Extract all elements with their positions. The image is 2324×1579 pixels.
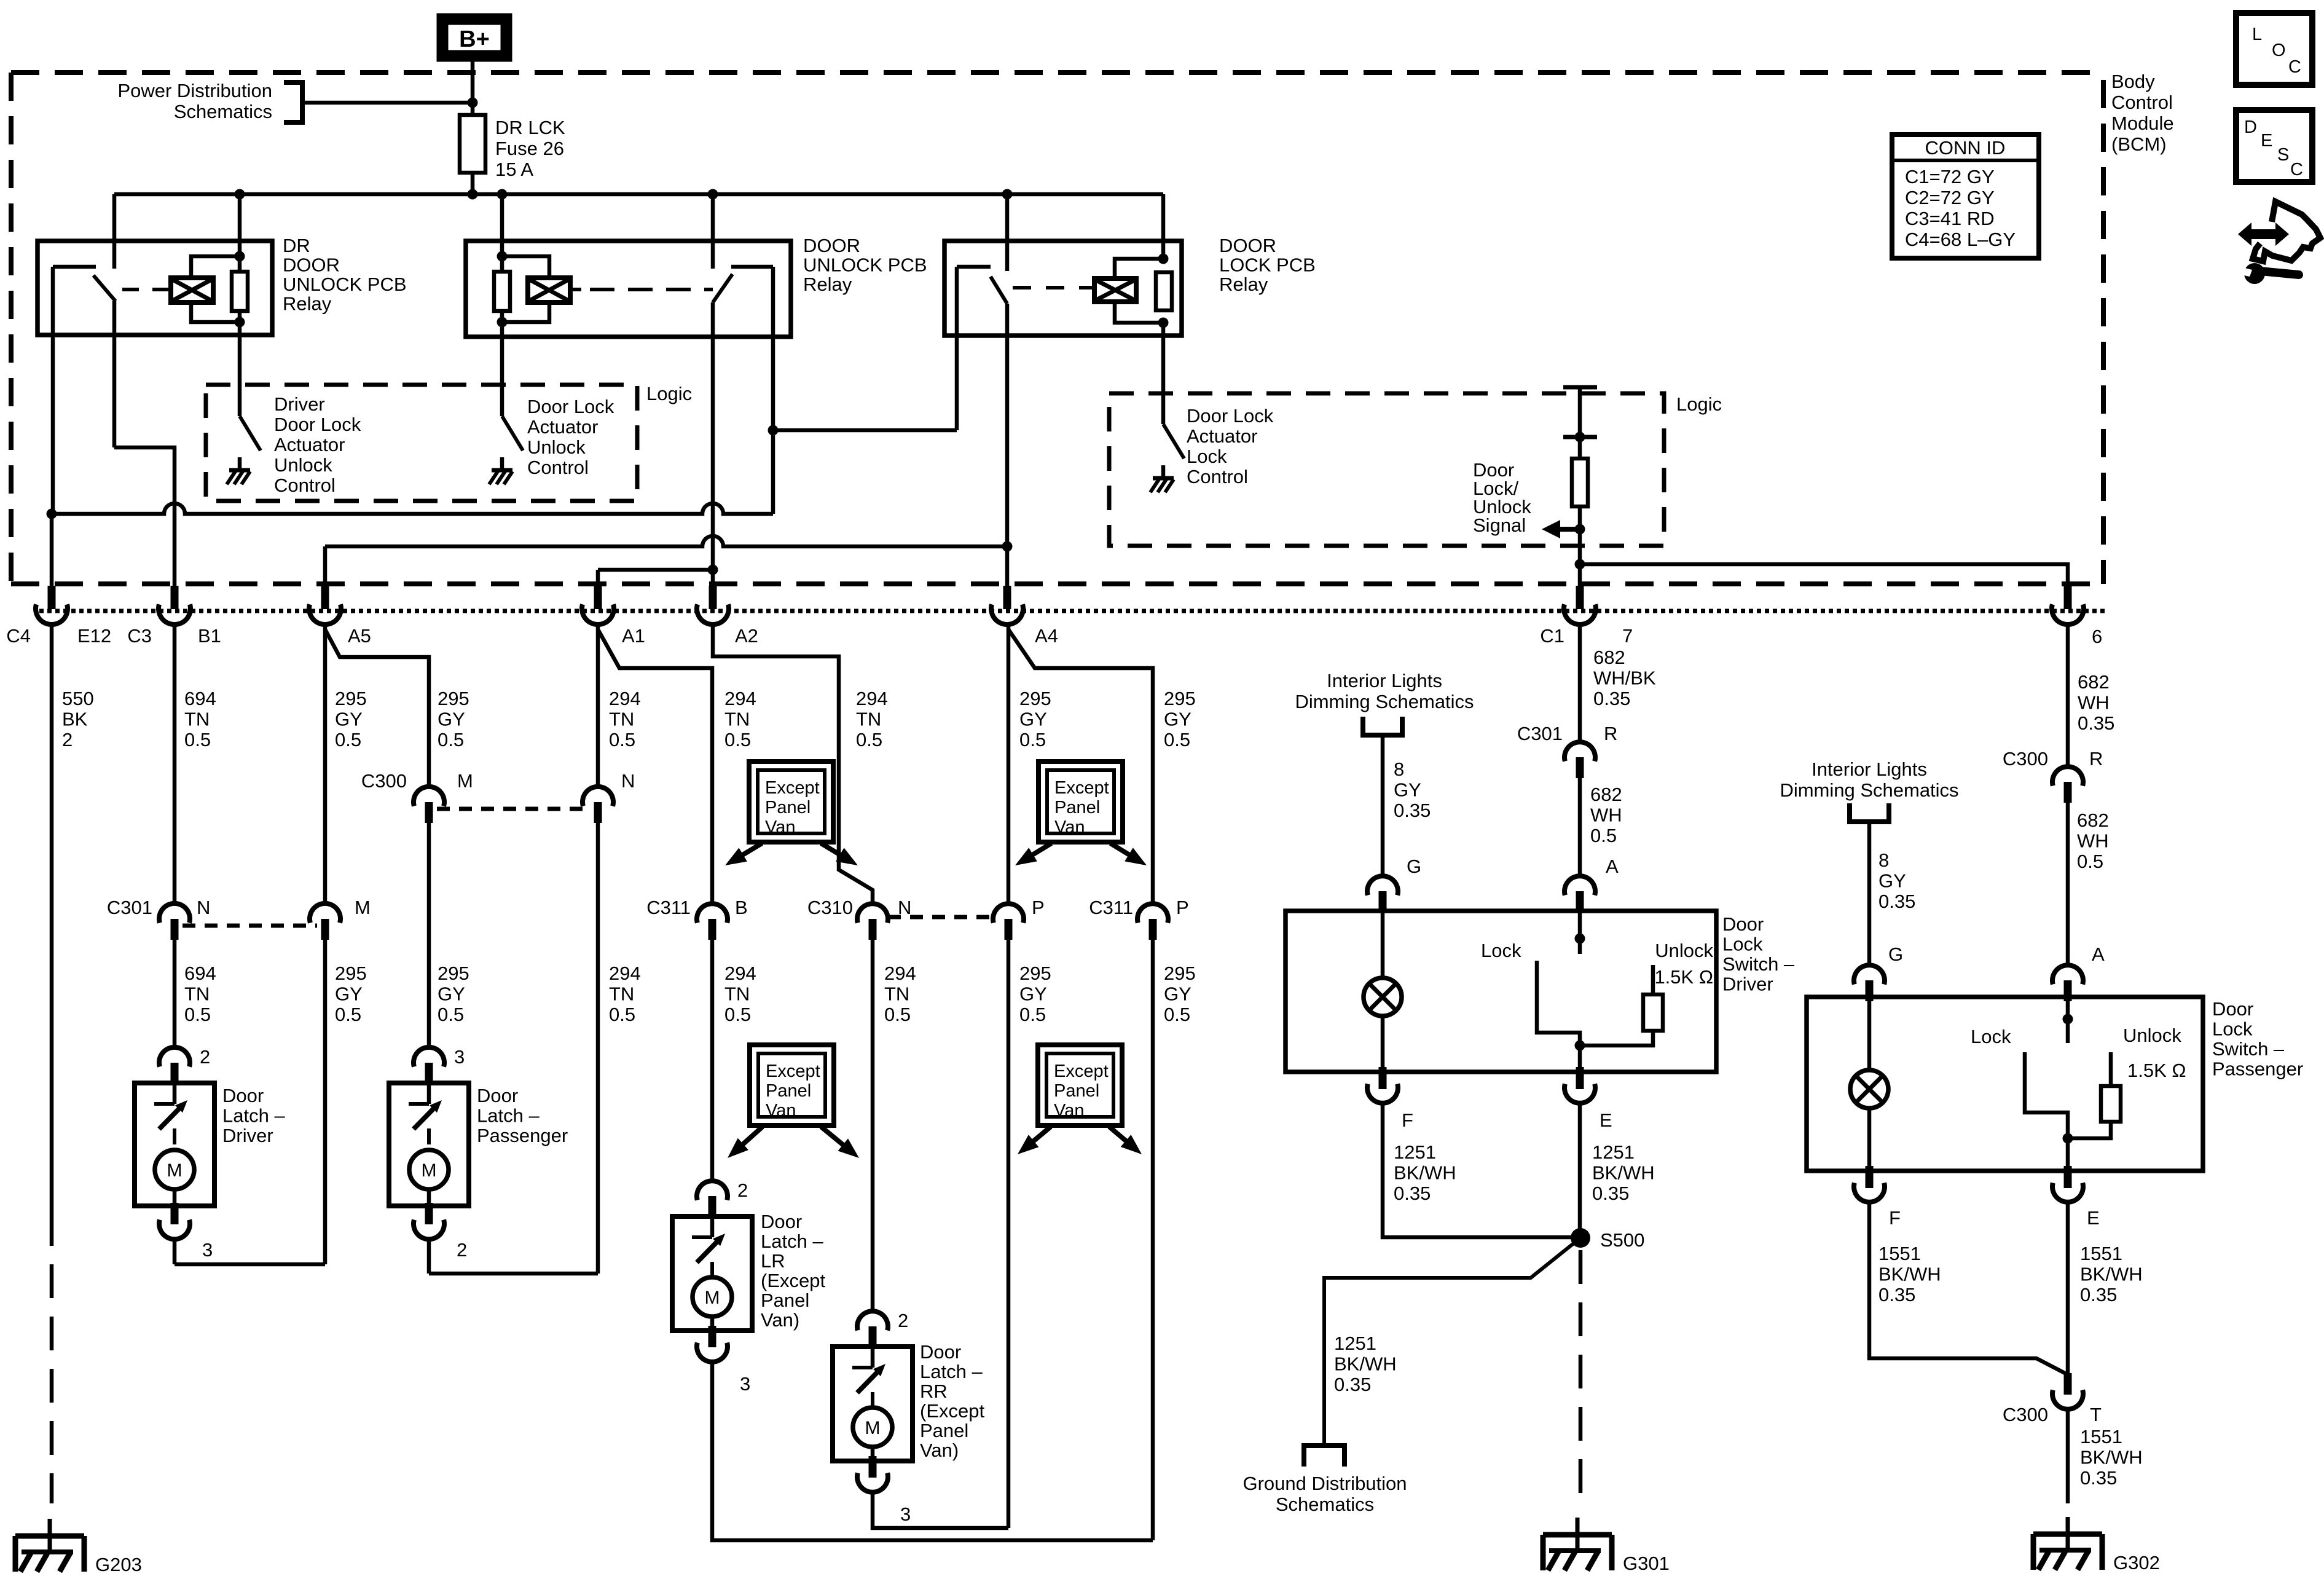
svg-text:294: 294 — [724, 963, 756, 984]
svg-text:Latch –: Latch – — [477, 1105, 540, 1127]
svg-text:Control: Control — [2111, 92, 2173, 113]
svg-text:F: F — [1402, 1109, 1413, 1131]
svg-text:C: C — [2290, 160, 2303, 179]
svg-text:R: R — [1604, 723, 1617, 744]
svg-text:Door Lock: Door Lock — [1187, 405, 1274, 427]
svg-text:GY: GY — [1164, 983, 1191, 1005]
svg-text:0.35: 0.35 — [1592, 1183, 1629, 1204]
svg-text:2: 2 — [898, 1310, 908, 1331]
svg-text:0.5: 0.5 — [856, 729, 882, 750]
svg-text:7: 7 — [1622, 625, 1633, 647]
svg-text:GY: GY — [438, 983, 465, 1005]
svg-text:P: P — [1032, 897, 1045, 918]
svg-text:BK/WH: BK/WH — [1334, 1353, 1397, 1375]
svg-text:Actuator: Actuator — [1187, 425, 1257, 447]
svg-text:A1: A1 — [622, 625, 645, 647]
svg-text:C1=72 GY: C1=72 GY — [1905, 166, 1995, 187]
svg-text:1251: 1251 — [1592, 1141, 1635, 1163]
svg-text:295: 295 — [335, 688, 367, 709]
svg-text:S: S — [2277, 145, 2289, 165]
svg-text:Passenger: Passenger — [477, 1125, 568, 1146]
svg-text:C3=41 RD: C3=41 RD — [1905, 208, 1995, 229]
svg-text:0.5: 0.5 — [609, 729, 635, 750]
svg-text:Except: Except — [766, 1061, 820, 1081]
svg-text:682: 682 — [1590, 784, 1622, 805]
svg-text:2: 2 — [457, 1239, 467, 1261]
svg-text:Dimming Schematics: Dimming Schematics — [1780, 779, 1958, 801]
svg-text:694: 694 — [184, 688, 216, 709]
svg-text:295: 295 — [335, 963, 367, 984]
svg-text:Van: Van — [1054, 817, 1085, 837]
svg-text:P: P — [1176, 897, 1189, 918]
svg-text:Power Distribution: Power Distribution — [117, 80, 272, 101]
svg-text:E: E — [1600, 1109, 1612, 1131]
svg-text:Driver: Driver — [274, 393, 325, 415]
svg-text:Door: Door — [222, 1085, 264, 1106]
svg-text:Except: Except — [1054, 1061, 1109, 1081]
svg-text:Unlock: Unlock — [1655, 940, 1713, 961]
svg-text:Door: Door — [1722, 913, 1764, 935]
svg-text:DR: DR — [283, 235, 310, 256]
svg-text:Module: Module — [2111, 112, 2174, 134]
svg-text:Actuator: Actuator — [274, 434, 345, 455]
svg-text:C300: C300 — [361, 770, 407, 792]
svg-text:Switch –: Switch – — [1722, 953, 1795, 975]
svg-text:L: L — [2252, 25, 2262, 44]
svg-text:M: M — [865, 1418, 881, 1438]
svg-text:B: B — [735, 897, 748, 918]
svg-text:0.5: 0.5 — [1019, 729, 1046, 750]
svg-text:T: T — [2090, 1404, 2102, 1425]
svg-text:DOOR: DOOR — [803, 235, 860, 256]
svg-text:Switch –: Switch – — [2212, 1038, 2285, 1060]
svg-text:GY: GY — [1164, 709, 1191, 730]
svg-text:GY: GY — [335, 709, 363, 730]
svg-text:3: 3 — [900, 1503, 911, 1525]
svg-text:0.5: 0.5 — [724, 729, 751, 750]
svg-text:GY: GY — [1019, 709, 1047, 730]
svg-text:0.5: 0.5 — [438, 1004, 464, 1025]
svg-text:G301: G301 — [1623, 1553, 1670, 1574]
svg-text:Fuse 26: Fuse 26 — [495, 138, 564, 159]
svg-text:Schematics: Schematics — [174, 101, 272, 122]
svg-text:294: 294 — [609, 688, 641, 709]
svg-text:O: O — [2272, 41, 2286, 60]
svg-text:G: G — [1888, 943, 1903, 965]
svg-text:WH: WH — [2077, 830, 2109, 852]
svg-text:8: 8 — [1878, 849, 1889, 871]
svg-text:Panel: Panel — [1054, 1081, 1099, 1101]
svg-text:C4=68 L–GY: C4=68 L–GY — [1905, 229, 2016, 250]
svg-text:0.35: 0.35 — [2080, 1467, 2117, 1489]
svg-text:TN: TN — [724, 709, 750, 730]
svg-text:295: 295 — [438, 688, 469, 709]
svg-text:8: 8 — [1394, 758, 1404, 780]
svg-text:Relay: Relay — [283, 293, 332, 315]
svg-text:TN: TN — [724, 983, 750, 1005]
svg-text:DR LCK: DR LCK — [495, 117, 565, 138]
svg-text:G203: G203 — [95, 1554, 142, 1575]
svg-text:Lock: Lock — [2212, 1018, 2253, 1040]
svg-text:M: M — [457, 770, 473, 792]
svg-text:A2: A2 — [735, 625, 758, 647]
svg-text:N: N — [197, 897, 210, 918]
svg-text:BK/WH: BK/WH — [1394, 1162, 1456, 1184]
svg-text:WH: WH — [1590, 805, 1622, 826]
svg-text:C311: C311 — [1089, 897, 1133, 918]
svg-text:0.5: 0.5 — [1019, 1004, 1046, 1025]
svg-text:0.5: 0.5 — [1164, 1004, 1190, 1025]
svg-text:Control: Control — [1187, 466, 1248, 487]
svg-text:0.35: 0.35 — [1878, 891, 1915, 912]
svg-text:682: 682 — [2077, 809, 2109, 831]
svg-text:E12: E12 — [77, 625, 111, 647]
svg-text:F: F — [1889, 1207, 1901, 1229]
svg-text:Logic: Logic — [1676, 393, 1722, 415]
svg-text:Ground Distribution: Ground Distribution — [1242, 1473, 1407, 1494]
svg-text:G302: G302 — [2113, 1552, 2160, 1573]
svg-text:Latch –: Latch – — [222, 1105, 285, 1127]
svg-text:WH/BK: WH/BK — [1593, 667, 1656, 689]
svg-text:Panel: Panel — [765, 798, 811, 817]
svg-text:LR: LR — [761, 1250, 785, 1272]
svg-text:GY: GY — [335, 983, 363, 1005]
svg-text:Van: Van — [765, 817, 795, 837]
svg-text:E: E — [2087, 1207, 2100, 1229]
svg-text:UNLOCK PCB: UNLOCK PCB — [283, 274, 407, 295]
svg-text:6: 6 — [2092, 626, 2102, 647]
svg-text:0.5: 0.5 — [335, 729, 361, 750]
svg-text:Interior Lights: Interior Lights — [1327, 670, 1442, 691]
svg-text:Lock: Lock — [1481, 940, 1521, 961]
svg-text:682: 682 — [1593, 647, 1625, 668]
svg-text:GY: GY — [1394, 779, 1421, 801]
svg-text:Van: Van — [1054, 1101, 1084, 1120]
svg-text:C301: C301 — [1517, 723, 1563, 744]
svg-text:M: M — [705, 1288, 720, 1308]
svg-text:WH: WH — [2078, 692, 2110, 714]
svg-text:Actuator: Actuator — [527, 416, 598, 438]
svg-text:0.35: 0.35 — [2080, 1284, 2117, 1305]
svg-text:0.5: 0.5 — [724, 1004, 751, 1025]
svg-text:A: A — [2092, 943, 2105, 965]
svg-text:Panel: Panel — [1054, 798, 1100, 817]
svg-text:0.5: 0.5 — [184, 1004, 211, 1025]
svg-text:Lock: Lock — [1971, 1026, 2011, 1047]
svg-text:C310: C310 — [807, 897, 853, 918]
svg-text:Door Lock: Door Lock — [274, 414, 361, 435]
svg-text:0.5: 0.5 — [1164, 729, 1190, 750]
svg-text:0.5: 0.5 — [1590, 825, 1617, 846]
svg-text:BK/WH: BK/WH — [1592, 1162, 1655, 1184]
svg-text:550: 550 — [62, 688, 94, 709]
svg-text:(Except: (Except — [761, 1270, 825, 1291]
svg-text:C300: C300 — [2003, 1404, 2048, 1425]
svg-text:A4: A4 — [1035, 625, 1058, 647]
svg-text:0.35: 0.35 — [1394, 800, 1431, 821]
svg-text:Van): Van) — [920, 1439, 959, 1461]
svg-text:Body: Body — [2111, 71, 2155, 92]
svg-text:R: R — [2089, 748, 2103, 770]
svg-text:Lock: Lock — [1722, 934, 1763, 955]
svg-text:Door Lock: Door Lock — [527, 396, 614, 417]
svg-text:Driver: Driver — [1722, 974, 1773, 995]
svg-text:UNLOCK PCB: UNLOCK PCB — [803, 254, 927, 276]
svg-text:M: M — [167, 1160, 183, 1181]
svg-text:Panel: Panel — [761, 1290, 809, 1311]
svg-text:TN: TN — [609, 983, 634, 1005]
svg-text:Lock: Lock — [1187, 446, 1227, 467]
svg-text:C3: C3 — [127, 625, 152, 647]
svg-text:C300: C300 — [2003, 748, 2048, 770]
svg-text:0.35: 0.35 — [1334, 1374, 1371, 1395]
svg-text:LOCK PCB: LOCK PCB — [1219, 254, 1316, 276]
svg-text:A: A — [1606, 856, 1619, 877]
svg-text:Latch –: Latch – — [920, 1361, 983, 1382]
svg-text:C4: C4 — [6, 625, 31, 647]
svg-text:0.35: 0.35 — [1878, 1284, 1915, 1305]
svg-text:294: 294 — [884, 963, 916, 984]
svg-text:B+: B+ — [459, 26, 490, 52]
svg-text:Door: Door — [761, 1211, 802, 1232]
svg-text:295: 295 — [1019, 688, 1051, 709]
svg-text:TN: TN — [184, 709, 210, 730]
svg-text:Van: Van — [766, 1101, 796, 1120]
svg-text:Logic: Logic — [646, 383, 692, 404]
svg-text:1.5K Ω: 1.5K Ω — [2127, 1060, 2186, 1081]
svg-text:0.5: 0.5 — [184, 729, 211, 750]
svg-text:Panel: Panel — [766, 1081, 811, 1101]
svg-text:2: 2 — [62, 729, 73, 750]
svg-text:0.5: 0.5 — [2077, 851, 2103, 872]
svg-text:TN: TN — [184, 983, 210, 1005]
svg-text:Signal: Signal — [1473, 514, 1526, 536]
svg-text:Driver: Driver — [222, 1125, 273, 1146]
svg-text:0.5: 0.5 — [884, 1004, 911, 1025]
svg-text:M: M — [355, 897, 371, 918]
svg-text:S500: S500 — [1600, 1229, 1644, 1251]
svg-text:1551: 1551 — [1878, 1243, 1921, 1264]
svg-text:CONN ID: CONN ID — [1925, 137, 2006, 159]
svg-text:0.5: 0.5 — [438, 729, 464, 750]
svg-text:E: E — [2261, 131, 2272, 151]
svg-text:DOOR: DOOR — [1219, 235, 1276, 256]
svg-text:694: 694 — [184, 963, 216, 984]
svg-text:Door: Door — [920, 1341, 961, 1363]
svg-text:Relay: Relay — [1219, 274, 1268, 295]
svg-text:Unlock: Unlock — [274, 454, 332, 476]
svg-text:A5: A5 — [348, 625, 371, 647]
svg-text:C301: C301 — [107, 897, 152, 918]
svg-text:Dimming Schematics: Dimming Schematics — [1295, 691, 1474, 712]
svg-text:1.5K Ω: 1.5K Ω — [1654, 966, 1713, 988]
svg-text:BK/WH: BK/WH — [1878, 1264, 1941, 1285]
svg-text:0.35: 0.35 — [1593, 688, 1630, 709]
svg-text:BK/WH: BK/WH — [2080, 1264, 2143, 1285]
svg-text:TN: TN — [609, 709, 634, 730]
svg-text:BK: BK — [62, 709, 88, 730]
svg-text:GY: GY — [1878, 870, 1906, 892]
svg-text:(Except: (Except — [920, 1400, 984, 1422]
svg-text:B1: B1 — [198, 625, 221, 647]
svg-text:N: N — [621, 770, 635, 792]
svg-text:Control: Control — [274, 474, 336, 496]
svg-text:2: 2 — [737, 1179, 748, 1201]
svg-text:1251: 1251 — [1334, 1333, 1376, 1354]
svg-text:3: 3 — [202, 1239, 213, 1261]
svg-text:3: 3 — [454, 1046, 465, 1068]
svg-text:BK/WH: BK/WH — [2080, 1447, 2143, 1468]
svg-text:0.5: 0.5 — [609, 1004, 635, 1025]
svg-text:Door: Door — [477, 1085, 518, 1106]
svg-text:C311: C311 — [646, 897, 691, 918]
svg-text:Except: Except — [765, 778, 820, 798]
svg-text:Unlock: Unlock — [527, 436, 586, 458]
svg-text:294: 294 — [856, 688, 888, 709]
svg-text:Schematics: Schematics — [1276, 1494, 1374, 1515]
svg-text:15 A: 15 A — [495, 159, 533, 180]
svg-text:TN: TN — [856, 709, 881, 730]
svg-text:295: 295 — [1164, 963, 1196, 984]
svg-text:2: 2 — [200, 1046, 210, 1068]
svg-text:294: 294 — [609, 963, 641, 984]
svg-text:Interior Lights: Interior Lights — [1812, 758, 1927, 780]
svg-text:M: M — [422, 1160, 437, 1181]
svg-text:GY: GY — [438, 709, 465, 730]
svg-text:295: 295 — [438, 963, 469, 984]
svg-text:1551: 1551 — [2080, 1243, 2122, 1264]
svg-text:Unlock: Unlock — [2123, 1025, 2181, 1046]
svg-text:RR: RR — [920, 1380, 948, 1402]
svg-text:GY: GY — [1019, 983, 1047, 1005]
svg-text:294: 294 — [724, 688, 756, 709]
svg-text:Control: Control — [527, 457, 589, 478]
svg-text:C2=72 GY: C2=72 GY — [1905, 187, 1995, 208]
svg-text:0.5: 0.5 — [335, 1004, 361, 1025]
svg-text:Van): Van) — [761, 1309, 799, 1331]
svg-text:1551: 1551 — [2080, 1426, 2122, 1447]
svg-text:Relay: Relay — [803, 274, 852, 295]
svg-text:C: C — [2288, 57, 2301, 77]
svg-text:D: D — [2244, 117, 2257, 137]
svg-text:295: 295 — [1164, 688, 1196, 709]
svg-text:0.35: 0.35 — [2078, 712, 2114, 734]
svg-text:3: 3 — [740, 1373, 750, 1395]
svg-text:Door: Door — [2212, 998, 2253, 1020]
svg-text:Latch –: Latch – — [761, 1231, 823, 1252]
svg-text:Panel: Panel — [920, 1420, 968, 1441]
svg-text:TN: TN — [884, 983, 909, 1005]
svg-text:682: 682 — [2078, 671, 2110, 693]
svg-text:C1: C1 — [1540, 625, 1564, 647]
svg-text:G: G — [1407, 856, 1421, 877]
svg-text:Passenger: Passenger — [2212, 1058, 2303, 1080]
svg-text:(BCM): (BCM) — [2111, 133, 2167, 155]
svg-text:1251: 1251 — [1394, 1141, 1436, 1163]
svg-text:Except: Except — [1054, 778, 1109, 798]
svg-text:DOOR: DOOR — [283, 254, 340, 276]
svg-text:295: 295 — [1019, 963, 1051, 984]
svg-text:0.35: 0.35 — [1394, 1183, 1431, 1204]
